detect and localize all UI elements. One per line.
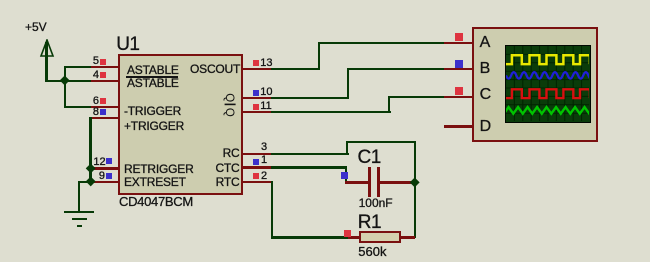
svg-text:Q: Q: [223, 108, 235, 117]
svg-text:Q: Q: [223, 93, 235, 102]
